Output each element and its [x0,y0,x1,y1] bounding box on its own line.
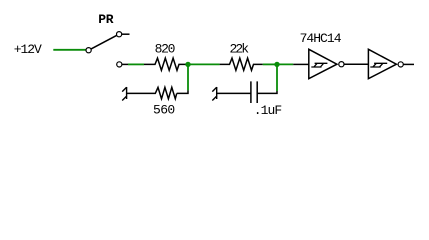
ground G1 [122,87,126,101]
label PR [98,12,113,27]
node junction A dot [185,62,190,67]
C1 left lead [217,92,251,94]
R3 right lead corner [177,90,188,93]
wire switch to R1 (green) [128,63,144,65]
switch SW1 top throw terminal [117,32,122,37]
ground G2 [212,87,216,101]
inverter U1B triangle [368,49,396,78]
inverter U1B output bubble [398,62,403,67]
label 560 [153,102,175,117]
U1B output stub [403,63,414,65]
label 22k [230,41,250,56]
switch SW1 pole terminal [86,48,91,53]
switch SW1 bottom throw stub [122,63,128,65]
wire junction A down (green) [187,64,189,90]
label .1uF [254,103,282,118]
svg-text:74HC14: 74HC14 [300,31,342,46]
inverter U1A output bubble [339,62,344,67]
inverter U1B hysteresis symbol [370,63,387,67]
wire U1A output to U1B input [344,63,368,65]
svg-text:560: 560 [153,102,175,117]
label 74HC14 [300,31,342,46]
wire junction A to R2 (green) [188,63,220,65]
resistor R2 22k [220,58,263,70]
switch SW1 bottom throw terminal [117,62,122,67]
resistor R1 820 [144,58,188,70]
node junction B dot [274,62,279,67]
C1 right lead corner [257,91,277,93]
inverter U1A triangle [309,49,337,78]
svg-text:PR: PR [98,12,113,27]
svg-text:+12V: +12V [14,42,42,57]
wire junction B down (green) [276,64,278,91]
wire +12V to switch pole (green) [53,49,86,51]
capacitor C1 plates [251,81,257,103]
label +12V [14,42,42,57]
svg-text:22k: 22k [230,41,250,56]
switch SW1 top throw stub [122,33,130,35]
wire junction B to U1 input (green) [277,63,293,65]
U1 input pin lead [293,63,309,65]
svg-text:.1uF: .1uF [254,103,282,118]
wire R2 to junction B (green) [263,63,277,65]
switch SW1 blade [91,35,117,49]
inverter U1A hysteresis symbol [311,63,327,67]
resistor R3 560 [127,87,177,98]
label 820 [155,42,176,57]
svg-text:820: 820 [155,42,176,57]
